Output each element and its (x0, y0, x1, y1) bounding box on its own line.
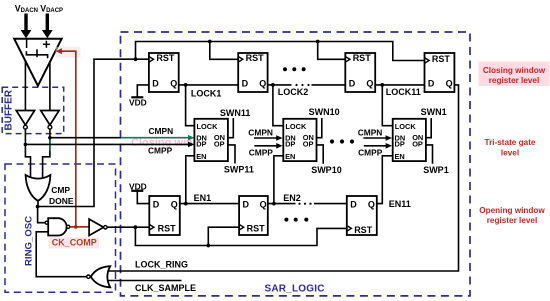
node bottom clock (134, 225, 138, 229)
VDD supply top (129, 85, 149, 108)
svg-text:SWP1: SWP1 (423, 165, 449, 175)
wire buffer1 output down (25, 129, 30, 179)
flip-flop FF1b (opening row) (149, 196, 180, 235)
ellipsis small dots EN wire (298, 203, 311, 205)
ellipsis big dots top row (283, 67, 306, 71)
svg-text:EN: EN (285, 152, 295, 161)
RING_OSC dashed box (5, 164, 116, 292)
svg-text:D: D (350, 199, 357, 209)
SAR_LOGIC dashed box (121, 32, 471, 296)
svg-text:Q: Q (366, 78, 373, 88)
svg-text:OP: OP (303, 139, 314, 148)
svg-text:LOCK1: LOCK1 (191, 88, 222, 98)
label Opening window register level (479, 206, 545, 225)
svg-text:D: D (242, 78, 249, 88)
svg-text:register level: register level (487, 216, 538, 225)
BUFFER dashed box (2, 87, 64, 133)
svg-text:SWN1: SWN1 (421, 107, 447, 117)
pink highlight CK_COMP (49, 237, 99, 248)
svg-text:Opening window: Opening window (479, 206, 545, 215)
svg-text:LOCK: LOCK (285, 122, 307, 131)
wire EN2 (268, 203, 296, 205)
node CMPN tap (48, 136, 52, 140)
node CMP_DONE (36, 205, 40, 209)
B3 CMPN arrow (358, 128, 392, 141)
svg-text:Tri-state gate: Tri-state gate (485, 138, 536, 147)
wire LOCK1 (179, 84, 239, 86)
node CK_COMP (red) (74, 225, 78, 229)
svg-text:D: D (428, 78, 435, 88)
wire into FF3b D (314, 203, 347, 205)
node bus FF3 (316, 40, 320, 44)
bottom clock bus (135, 227, 346, 245)
svg-text:CMPP: CMPP (148, 146, 173, 156)
svg-text:EN1: EN1 (194, 193, 212, 203)
ring osc inverter output wire (107, 226, 149, 228)
svg-text:RST: RST (432, 54, 451, 64)
inverter (ring osc) (89, 219, 107, 235)
OR gate CMP_DONE (26, 175, 51, 201)
wire CMPN black part (50, 137, 121, 139)
wire EN11 riser to B3 (377, 156, 393, 204)
svg-text:Q: Q (171, 199, 178, 209)
comparator output lead P (49, 63, 51, 111)
wire LOCK2 (268, 84, 292, 86)
svg-text:LOCK2: LOCK2 (278, 87, 309, 97)
wire EN1 (180, 203, 239, 205)
svg-text:BUFFER: BUFFER (4, 89, 15, 130)
node EN1 (184, 202, 188, 206)
wire LOCK2 drop to B2 (273, 85, 283, 126)
top RST bus (136, 42, 425, 61)
pink glow behind red arrow (56, 47, 81, 58)
svg-text:SWN11: SWN11 (220, 108, 251, 118)
svg-text:Closing window: Closing window (483, 66, 546, 75)
B1 ON stub to SWN11 (228, 118, 233, 138)
wire CMP_DONE to NAND bubble (38, 207, 45, 223)
NAND gate (ring osc) (48, 218, 66, 235)
svg-text:EN11: EN11 (389, 199, 411, 209)
wire FF3 clock drop (318, 42, 346, 60)
wire CMPN green part (121, 137, 189, 139)
wire Q4 to LOCK_RING (108, 85, 459, 271)
svg-text:Q: Q (259, 78, 266, 88)
svg-text:CMPP: CMPP (249, 147, 274, 157)
wire EN2 riser to B2 (274, 156, 283, 204)
label Tri-state gate level (485, 138, 536, 157)
flip-flop FF2b (opening row) (239, 196, 268, 235)
svg-text:CLK_SAMPLE: CLK_SAMPLE (135, 283, 196, 293)
wire CLK_SAMPLE stub (108, 280, 182, 282)
green segment on CMPN vertical (49, 139, 51, 151)
comparator output lead N (24, 61, 26, 111)
svg-text:LOCK_RING: LOCK_RING (135, 259, 188, 269)
svg-text:DP: DP (285, 140, 295, 149)
svg-text:D: D (153, 199, 160, 209)
tri-state gate B2 (283, 119, 316, 161)
flip-flop FF2 (closing row) (238, 53, 267, 92)
svg-text:register level: register level (489, 76, 540, 85)
svg-text:VDD: VDD (129, 98, 147, 108)
svg-text:SWP10: SWP10 (311, 165, 342, 175)
svg-text:DP: DP (196, 140, 206, 149)
B2 OP stub to SWP10 (317, 145, 324, 164)
VDACP input arrow (42, 14, 53, 39)
node LOCK2 (271, 83, 275, 87)
red arrowhead into comparator (56, 48, 62, 54)
svg-text:CMPN: CMPN (149, 126, 174, 136)
B1 OP stub to SWP11 (228, 145, 235, 164)
wire NOR output to NAND input (36, 232, 86, 277)
svg-text:SAR_LOGIC: SAR_LOGIC (265, 283, 325, 294)
svg-text:RST: RST (353, 53, 372, 63)
node top clock (134, 57, 138, 61)
B2 CMPN arrow (248, 128, 282, 141)
buffer inverter 2 (41, 111, 59, 130)
svg-text:Q: Q (260, 199, 267, 209)
node clock bus (206, 244, 210, 248)
VDD supply bottom (129, 182, 149, 204)
CMPN green arrowhead (188, 135, 194, 141)
svg-text:RING_OSC: RING_OSC (24, 216, 35, 266)
svg-text:RST: RST (354, 225, 373, 235)
B2 CMPP arrow (249, 143, 283, 157)
svg-text:D: D (349, 78, 356, 88)
flip-flop FF3b (opening row) (347, 196, 377, 235)
tri-state gate B1 (194, 119, 228, 161)
comparator U1 (14, 39, 61, 86)
svg-text:EN: EN (196, 152, 206, 161)
svg-text:OP: OP (412, 139, 423, 148)
wire FF2 clock drop (210, 42, 238, 60)
NOR output bubble (87, 275, 90, 278)
svg-text:RST: RST (247, 224, 266, 234)
svg-text:DP: DP (395, 140, 405, 149)
node bus FF2 (208, 40, 212, 44)
B3 ON stub to SWN1 (426, 118, 431, 138)
svg-text:SWP11: SWP11 (224, 164, 254, 174)
svg-text:SWN10: SWN10 (309, 107, 340, 117)
svg-text:OP: OP (214, 139, 225, 148)
ellipsis small dots top wire (295, 84, 309, 86)
VDACN input arrow (21, 14, 32, 39)
latch clock symbol (26, 49, 47, 58)
node CMPP tap (24, 143, 28, 147)
svg-text:Q: Q (368, 199, 375, 209)
svg-text:RST: RST (158, 224, 177, 234)
svg-text:D: D (152, 78, 159, 88)
svg-text:RST: RST (156, 53, 175, 63)
flip-flop FF4 (closing row) (425, 53, 455, 92)
B3 CMPP arrow (358, 143, 392, 157)
wire buffer2 output down (43, 129, 50, 179)
wire FF2b clock riser (208, 227, 239, 245)
node LOCK1 (184, 83, 188, 87)
svg-text:Q: Q (446, 78, 453, 88)
NAND input bubble (45, 221, 48, 224)
wire EN1 riser to B1 (186, 156, 195, 204)
svg-text:CMP: CMP (51, 185, 70, 195)
svg-text:LOCK: LOCK (395, 122, 417, 131)
label Closing window register level (479, 62, 550, 87)
svg-text:CMPN: CMPN (358, 128, 383, 138)
wire CMP_DONE output (38, 59, 149, 206)
wire LOCK1 drop to B1 (186, 85, 195, 126)
buffer inverter 1 (16, 111, 34, 130)
B3 OP stub to SWP1 (426, 145, 433, 164)
wire CK_COMP feedback (red) (60, 51, 76, 227)
CMPP arrowhead (188, 142, 194, 148)
svg-text:EN2: EN2 (283, 193, 301, 203)
svg-text:DONE: DONE (49, 196, 74, 206)
ellipsis big dots bottom row (284, 218, 308, 222)
flip-flop FF1 (closing row) (149, 53, 179, 92)
minus input lead (26, 39, 28, 48)
tri-state gate B3 (393, 119, 426, 161)
svg-text:RST: RST (246, 53, 265, 63)
svg-text:D: D (243, 199, 250, 209)
svg-text:EN: EN (395, 152, 405, 161)
NOR gate (ring osc, left-pointing) (91, 266, 110, 287)
wire LOCK11 (375, 84, 424, 86)
wire CMPP (25, 143, 188, 145)
svg-text:LOCK11: LOCK11 (386, 87, 421, 97)
ellipsis big dots middle row (330, 139, 354, 143)
svg-text:CK_COMP: CK_COMP (52, 238, 97, 248)
plus sign (43, 41, 50, 48)
svg-text:CMPP: CMPP (358, 147, 383, 157)
svg-text:level: level (501, 148, 519, 157)
wire LOCK11 drop to B3 (382, 85, 392, 126)
node LOCK11 (380, 83, 384, 87)
svg-text:LOCK: LOCK (197, 122, 219, 131)
svg-text:CMPN: CMPN (248, 128, 273, 138)
flip-flop FF3 (closing row) (345, 53, 375, 92)
B2 ON stub to SWN10 (317, 118, 322, 138)
wire NAND output (red) (70, 226, 89, 228)
NAND output bubble (67, 225, 70, 228)
wire into FF3 D (312, 84, 346, 86)
svg-text:Q: Q (170, 78, 177, 88)
node EN2 (272, 202, 276, 206)
